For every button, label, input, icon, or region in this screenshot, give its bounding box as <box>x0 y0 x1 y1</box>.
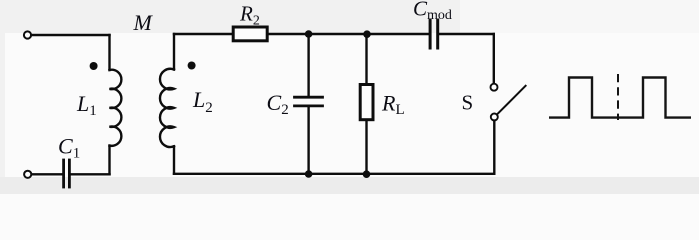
svg-text:S: S <box>462 91 474 115</box>
svg-text:M: M <box>133 10 154 35</box>
